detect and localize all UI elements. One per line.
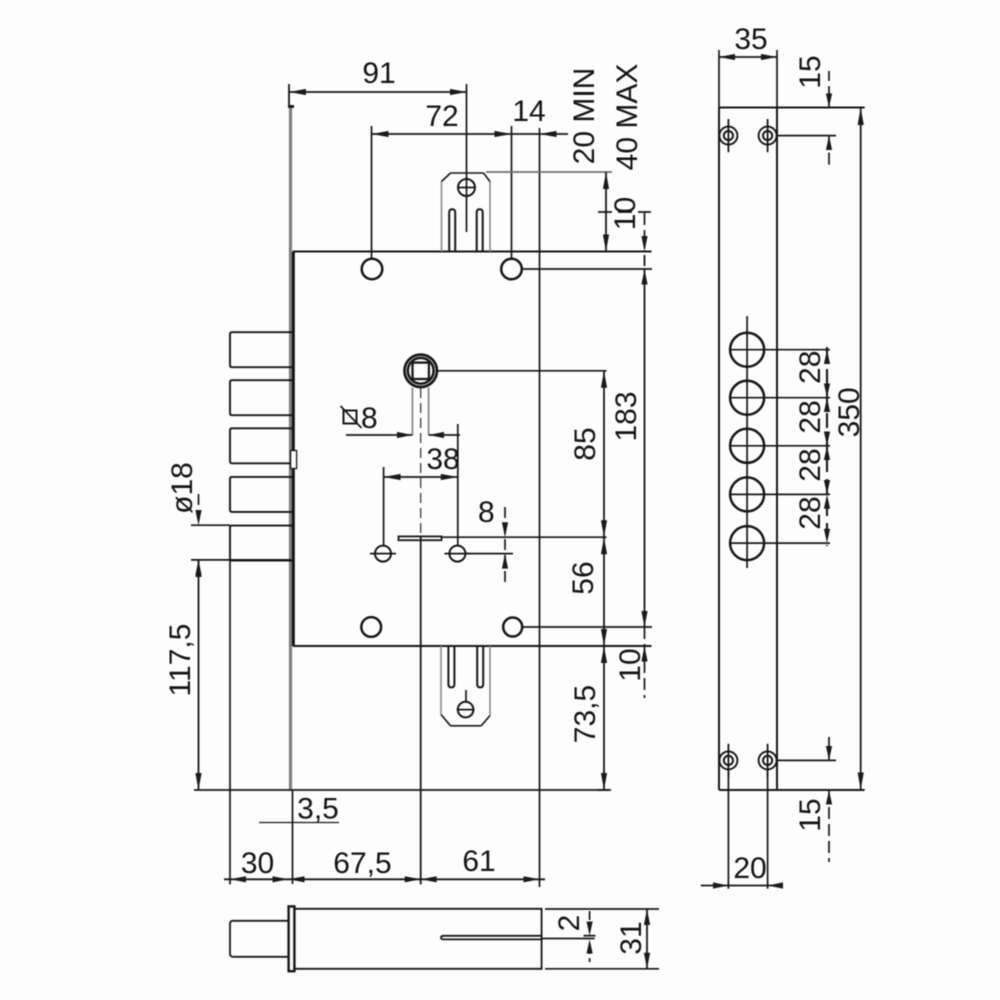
dim 15 bottom right xyxy=(828,737,830,760)
svg-text:67,5: 67,5 xyxy=(333,847,391,880)
right view hole 1 xyxy=(730,333,764,367)
latch bar xyxy=(399,536,442,540)
top fixing hole right xyxy=(501,259,522,280)
top hole centerline to right xyxy=(522,268,652,270)
svg-text:72: 72 xyxy=(425,100,458,133)
extension line from top-right hole xyxy=(511,126,513,259)
20 MIN reference dashes xyxy=(598,211,651,213)
hole centerlines horizontal xyxy=(730,349,830,351)
small notch on body edge xyxy=(291,451,297,469)
deadbolt 4 xyxy=(230,477,293,512)
bottom keeper plate left slot xyxy=(448,646,454,687)
right view hole 3 xyxy=(730,429,764,463)
faceplate edge (left view, thick gray front line) xyxy=(289,106,292,790)
lock body bottom edge xyxy=(293,645,652,647)
svg-text:28: 28 xyxy=(794,448,827,481)
dim 117,5 vertical line xyxy=(198,560,200,790)
bottom view keyway slit xyxy=(441,936,542,940)
bottom fixing hole right xyxy=(503,618,522,637)
bottom screw centerlines downward xyxy=(727,771,729,889)
73,5 end tick xyxy=(597,789,611,791)
dim 20 bottom right xyxy=(701,885,783,887)
dim 183 arrows xyxy=(641,611,647,627)
svg-text:31: 31 xyxy=(615,921,648,954)
svg-text:28: 28 xyxy=(794,400,827,433)
deadbolt 2 xyxy=(230,380,293,415)
bottom reference line y=790 xyxy=(194,789,608,791)
dim 35 xyxy=(719,56,777,58)
svg-text:117,5: 117,5 xyxy=(164,624,197,697)
latch bar line to right (56/85 ref) xyxy=(442,536,607,538)
dim 72 line xyxy=(372,133,569,135)
right view bottom screw right xyxy=(759,744,777,777)
svg-text:85: 85 xyxy=(569,427,602,460)
svg-text:28: 28 xyxy=(794,496,827,529)
top screw centerline to right xyxy=(777,135,836,137)
dim 2 (keyway) xyxy=(584,935,596,937)
right view faceplate outline xyxy=(718,108,720,791)
bottom view faceplate bar xyxy=(289,906,295,971)
svg-text:8: 8 xyxy=(361,402,378,435)
bottom keeper plate screw hole xyxy=(458,702,474,718)
small holes centerline to right (8 ref) xyxy=(465,553,513,555)
key cylinder square hole 8mm xyxy=(413,363,429,379)
svg-text:61: 61 xyxy=(462,845,495,878)
svg-text:28: 28 xyxy=(794,351,827,384)
top keeper plate outline xyxy=(442,173,491,252)
dim 30/67,5/61 line xyxy=(224,878,545,880)
svg-text:8: 8 xyxy=(478,496,495,529)
dim 3,5 leader underline xyxy=(259,822,339,824)
svg-text:40 MAX: 40 MAX xyxy=(611,64,644,171)
bottom view body xyxy=(295,909,542,969)
40 MAX reference line xyxy=(486,171,612,173)
svg-text:73,5: 73,5 xyxy=(569,685,602,743)
deadbolt 1 xyxy=(230,332,293,367)
svg-text:14: 14 xyxy=(512,95,545,128)
bottom keeper plate outline xyxy=(441,646,490,726)
svg-text:38: 38 xyxy=(426,443,459,476)
right view hole 2 xyxy=(730,381,764,415)
dim 15 top right xyxy=(828,71,830,108)
dim 350 xyxy=(860,108,862,791)
dim 28 chain dashed line xyxy=(826,347,828,546)
top keeper plate centerline xyxy=(466,84,468,232)
lock body left edge xyxy=(292,252,295,647)
key cylinder inner ring xyxy=(408,358,434,384)
bolt5 top extension line xyxy=(191,524,230,526)
svg-text:20 MIN: 20 MIN xyxy=(568,68,601,165)
svg-text:35: 35 xyxy=(734,23,767,56)
top keeper plate left slot xyxy=(449,209,455,251)
extension line x=292.5 below faceplate xyxy=(292,790,294,884)
svg-text:15: 15 xyxy=(794,55,827,88)
bottom keeper plate centerline xyxy=(465,690,467,702)
hole vertical centerline ticks xyxy=(746,316,748,568)
top keeper plate right slot xyxy=(477,209,483,251)
bottom screw centerline to right xyxy=(777,759,836,761)
extension line from top-left hole xyxy=(371,126,373,259)
svg-text:15: 15 xyxy=(794,798,827,831)
bottom fixing hole left xyxy=(361,617,381,637)
lock body top edge xyxy=(293,251,652,253)
right view top screw left xyxy=(719,119,737,152)
dim 91 line xyxy=(289,91,467,93)
right view bottom screw left xyxy=(719,744,737,777)
svg-text:183: 183 xyxy=(610,391,643,441)
svg-text:20: 20 xyxy=(733,852,766,885)
dim square-8 leader line xyxy=(346,434,412,436)
vertical centerline through cylinder (dashed then solid) xyxy=(420,388,422,536)
deadbolt 3 xyxy=(230,428,293,463)
bottom hole centerline to right xyxy=(523,626,653,628)
dim 8 (latch) dashed vertical xyxy=(504,507,506,584)
dim 10 bottom arrows xyxy=(641,646,647,662)
extension line bolt tip xyxy=(229,561,231,885)
top keeper plate screw hole xyxy=(458,179,475,196)
latch small hole left xyxy=(375,546,391,562)
svg-text:350: 350 xyxy=(833,387,866,437)
bolt5 bottom extension line xyxy=(191,559,292,561)
dim 38 line xyxy=(384,476,458,478)
latch small hole right xyxy=(449,546,465,562)
dim 31 xyxy=(545,908,659,910)
svg-text:10: 10 xyxy=(609,197,642,230)
svg-text:2: 2 xyxy=(553,915,586,932)
keyway centerline extension xyxy=(542,938,595,940)
square symbol xyxy=(344,411,357,424)
top fixing hole left xyxy=(362,259,383,280)
dim 14 arrow xyxy=(540,131,557,137)
svg-text:3,5: 3,5 xyxy=(297,793,339,826)
square hole projection lines down xyxy=(411,388,413,436)
dim 10 top / 183 shared vertical line xyxy=(644,213,646,248)
svg-text:10: 10 xyxy=(614,648,647,681)
deadbolt 5 xyxy=(230,526,293,561)
cylinder centerline to right (85 ref) xyxy=(438,370,607,372)
dim 85/56/73,5 chain vertical line xyxy=(603,371,605,790)
dim diam18 dashed vertical xyxy=(198,494,200,525)
svg-text:ø18: ø18 xyxy=(166,462,199,514)
svg-text:30: 30 xyxy=(241,847,274,880)
bottom keeper plate right slot xyxy=(477,646,483,687)
right view hole 4 xyxy=(730,477,764,511)
svg-text:56: 56 xyxy=(567,561,600,594)
bottom view bolt xyxy=(230,921,288,957)
long projection line of body back (x=539.5) xyxy=(539,128,541,887)
dim 40MAX/20MIN vertical line xyxy=(605,172,607,252)
right view top screw right xyxy=(759,119,777,152)
right view hole 5 xyxy=(730,526,764,560)
svg-text:91: 91 xyxy=(362,57,395,90)
key cylinder outer ring xyxy=(405,355,437,387)
